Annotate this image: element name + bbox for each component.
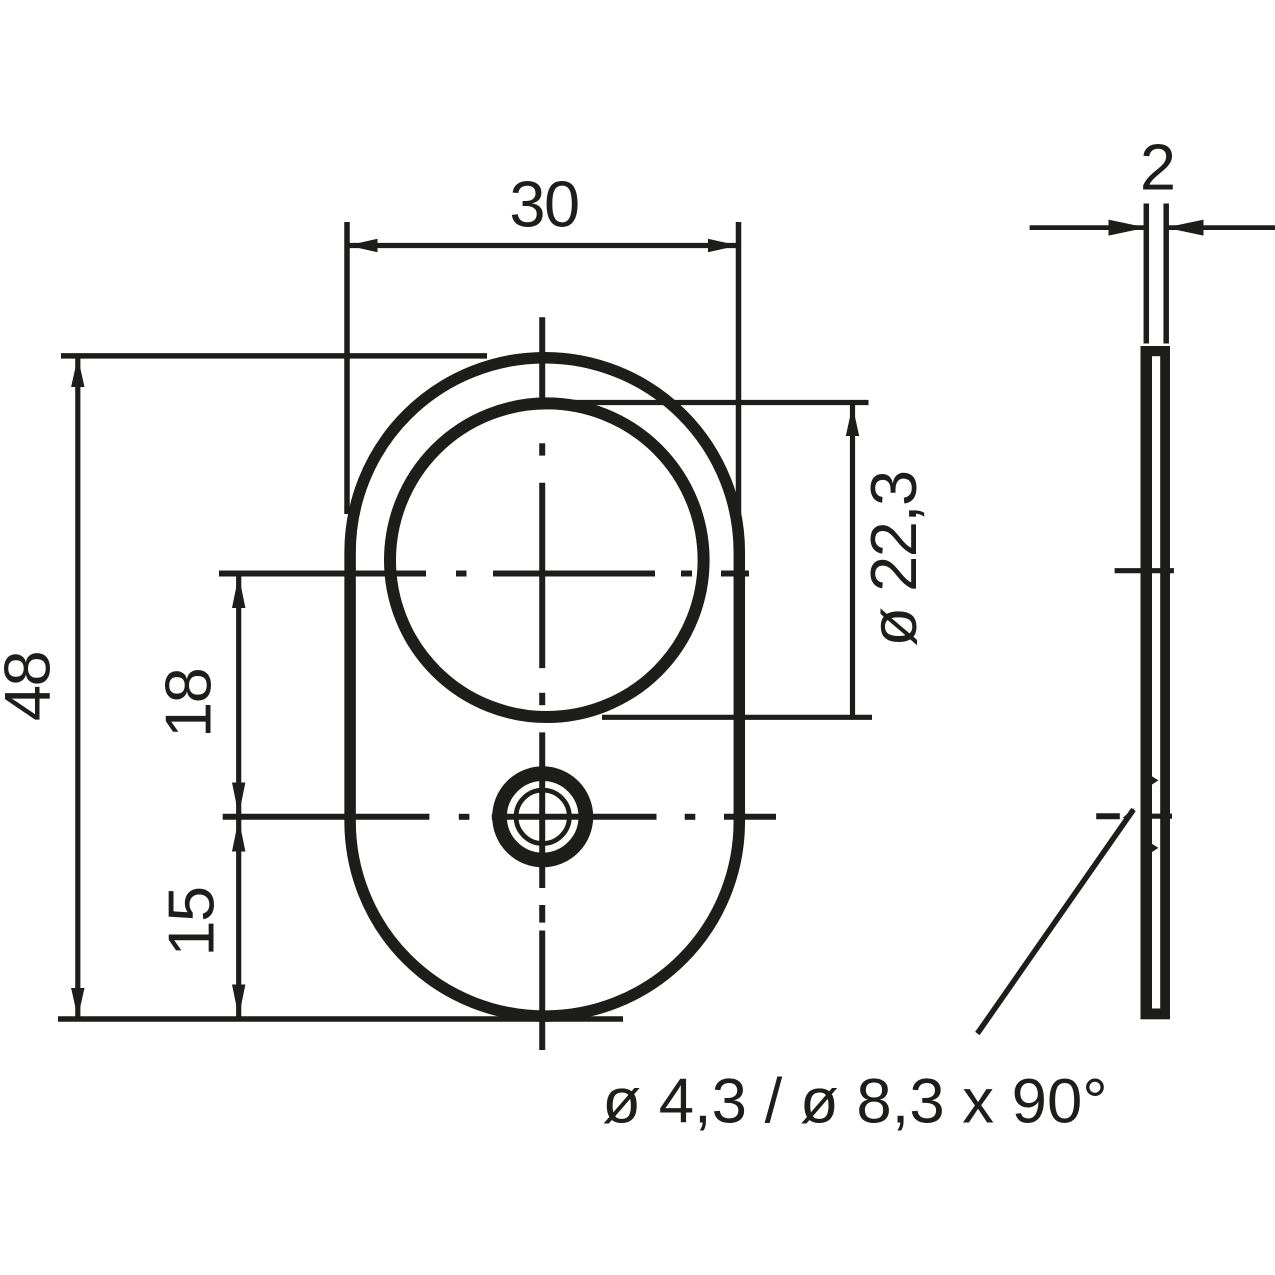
large hole circle (ø 22,3) [390, 403, 704, 717]
side view countersink triangles [1145, 772, 1158, 789]
dimension 48: arrowheads [71, 357, 84, 387]
vertical centerline [539, 317, 545, 1050]
dimension 2: arrowheads [1109, 220, 1147, 236]
dimension 2: dimension line [1030, 225, 1147, 230]
plate outline (stadium shape, front view) [350, 358, 739, 1016]
dimension ø 22,3: dimension line [850, 404, 855, 717]
countersunk hole outer ring (ø 8,3) [500, 774, 586, 860]
svg-text:30: 30 [509, 168, 578, 241]
dimension 18: arrowheads [232, 575, 245, 608]
dimension ø 22,3: arrowhead [846, 406, 859, 437]
dimension 30: extension lines [344, 222, 350, 514]
side view center tick (large circle) [1115, 568, 1174, 573]
countersunk hole inner circle (ø 4,3) [516, 790, 569, 843]
side view center tick (small hole) [1141, 814, 1172, 819]
side view plate body [1141, 346, 1171, 1019]
dimension 18: dimension line [236, 574, 241, 817]
leader line for countersink note [977, 810, 1133, 1034]
dimension 30: dimension line [347, 243, 739, 248]
dimension ø 22,3: extension lines [560, 400, 869, 405]
dimension 48: dimension line [75, 356, 80, 1019]
dimension 2: extension lines [1144, 204, 1150, 344]
svg-text:2: 2 [1140, 131, 1176, 204]
dimension 15: arrowheads [232, 819, 245, 852]
svg-text:ø 4,3 / ø 8,3 x 90°: ø 4,3 / ø 8,3 x 90° [602, 1067, 1107, 1137]
side view inner slot [1152, 356, 1160, 1008]
dimension 30: arrowheads [348, 239, 378, 252]
dimension 48: extension lines [61, 353, 487, 359]
leader end taper [1123, 808, 1135, 822]
svg-text:15: 15 [155, 887, 228, 956]
dimension 15: dimension line [236, 817, 241, 1019]
svg-text:48: 48 [0, 652, 64, 721]
svg-text:ø 22,3: ø 22,3 [857, 471, 930, 646]
horizontal centerline of small hole [223, 813, 1120, 820]
svg-text:18: 18 [152, 669, 225, 738]
horizontal centerline of large circle [219, 571, 749, 577]
